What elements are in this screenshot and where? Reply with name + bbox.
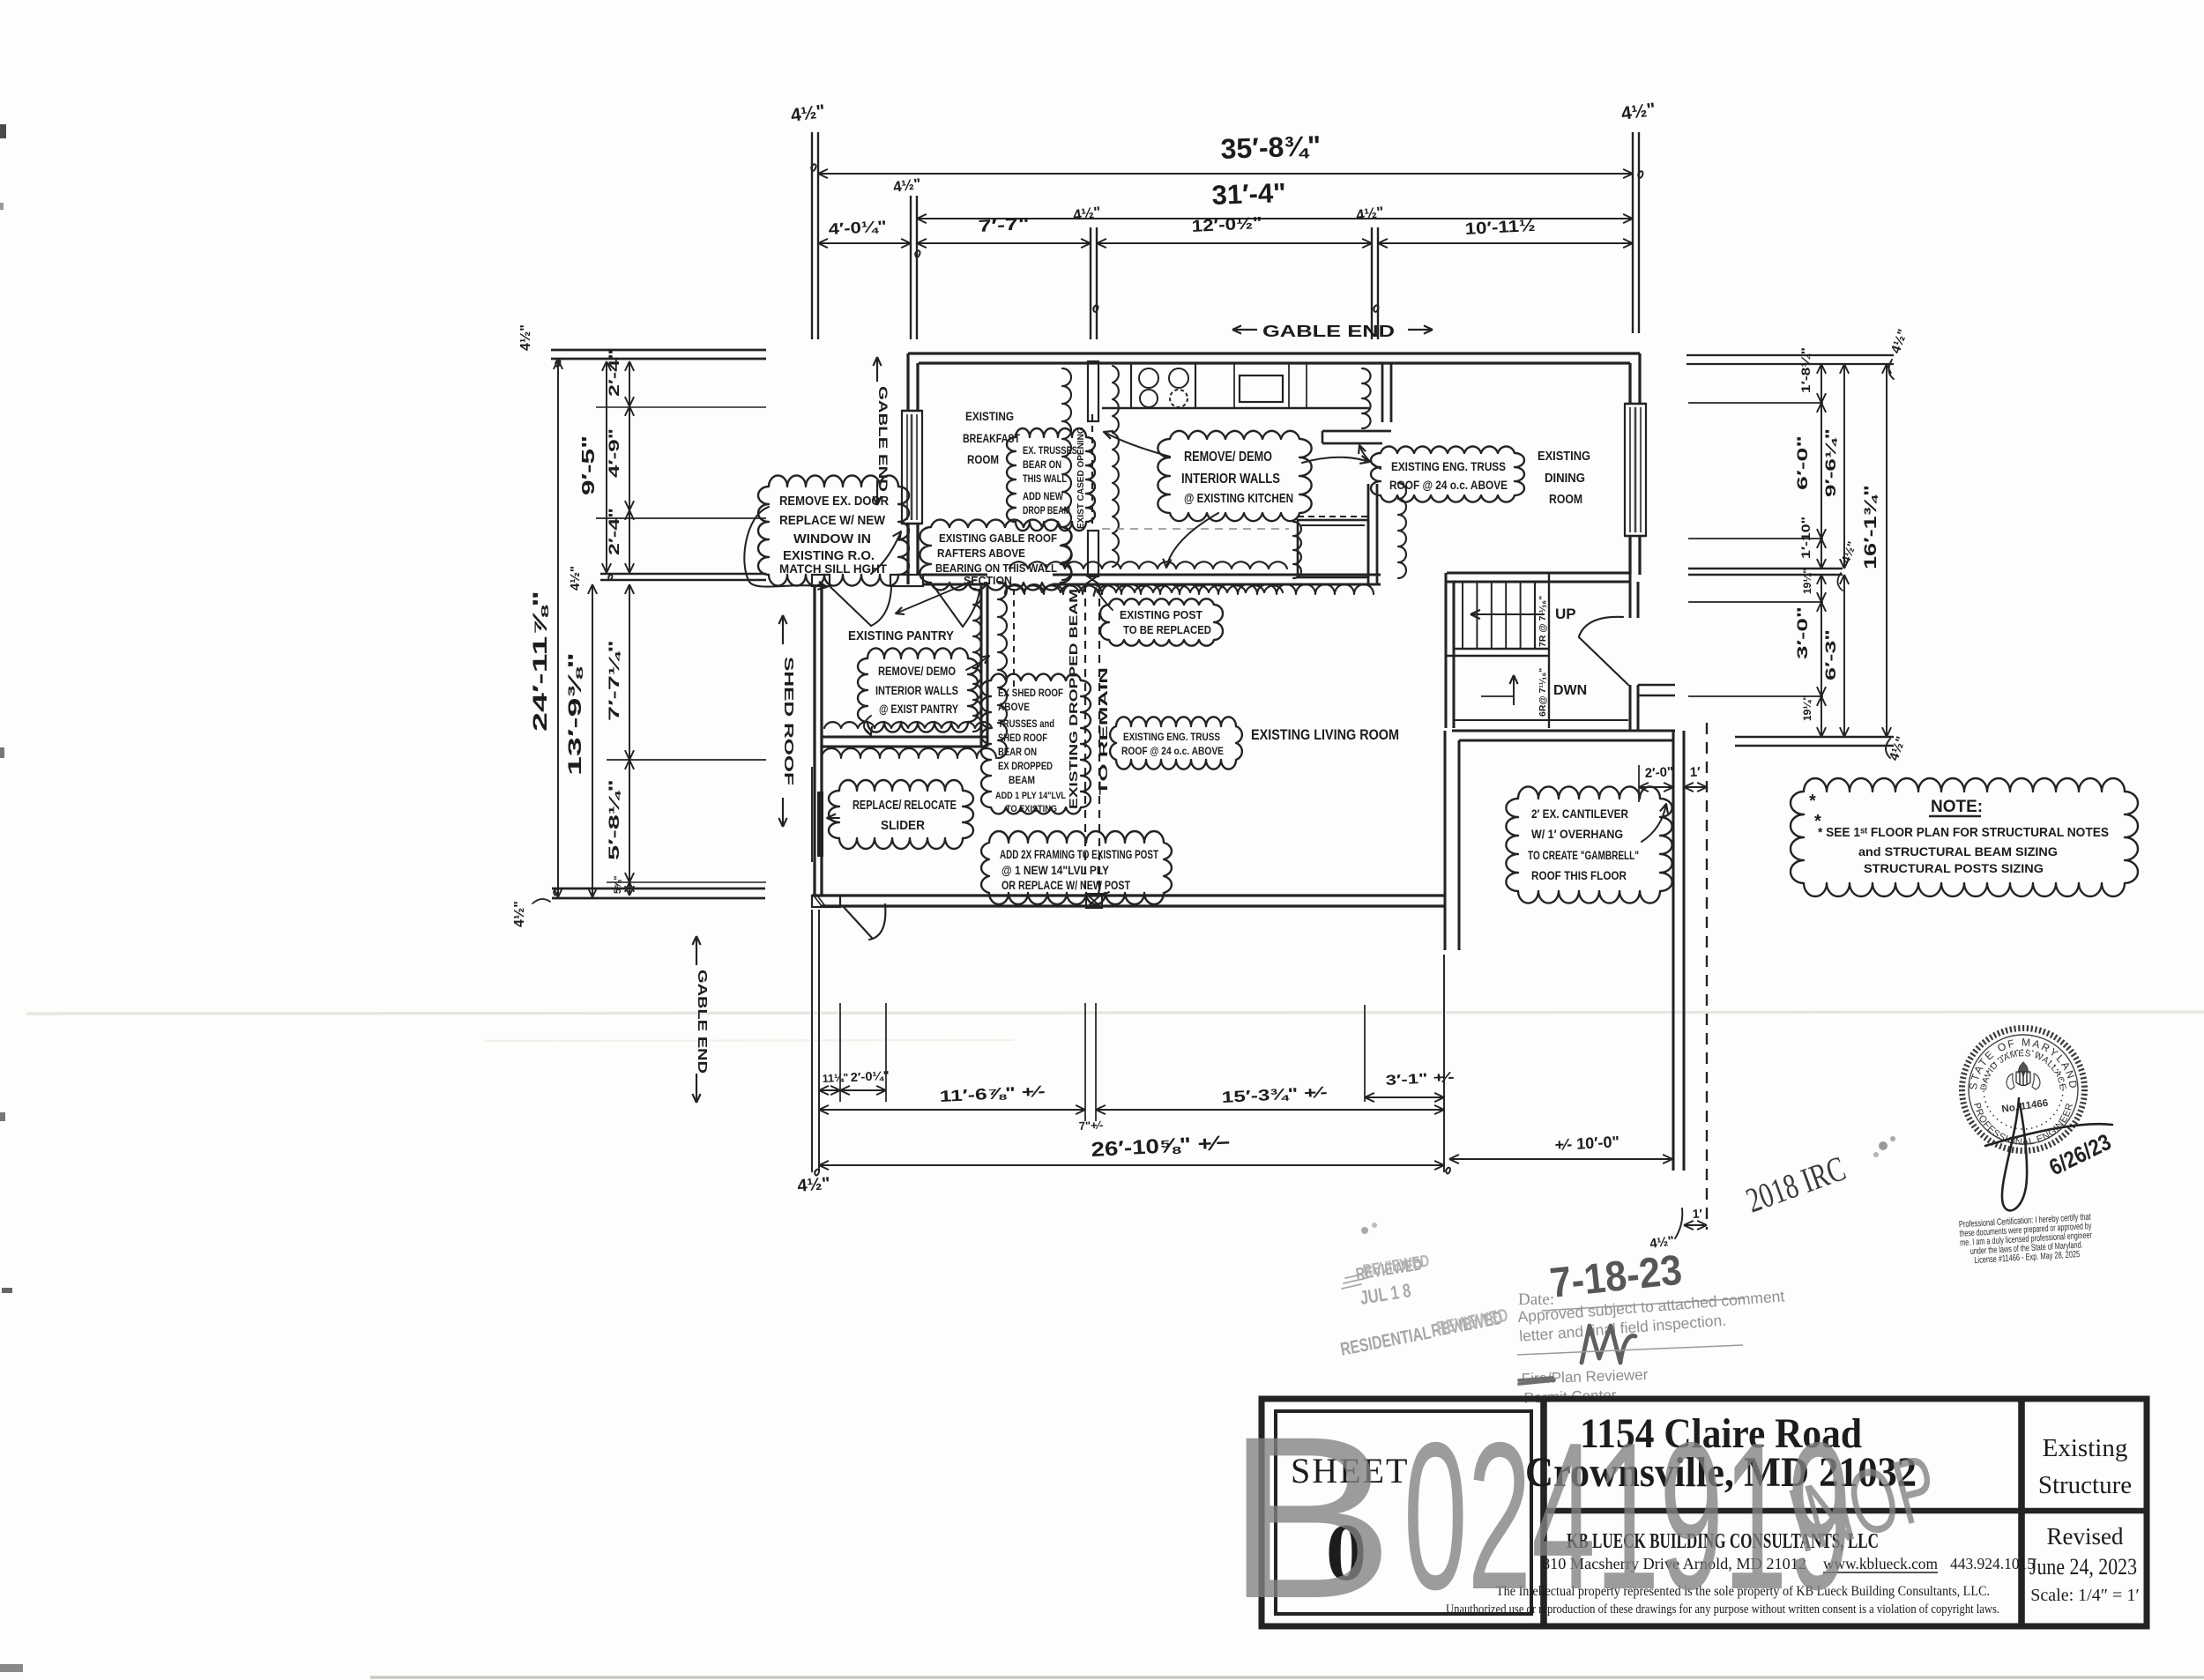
gable end label top [1232, 329, 1257, 331]
svg-text:EXISTING DROPPED BEAM: EXISTING DROPPED BEAM [1068, 589, 1080, 809]
pantry top wall with door jambs [812, 575, 830, 586]
pantry second door swing to kitchen [934, 586, 963, 627]
permit number marker graffiti B0241919 INOP [1225, 1388, 1948, 1647]
revision cloud around pantry walls [824, 722, 992, 728]
pantry bottom wall [822, 735, 987, 738]
svg-text:*: * [1814, 812, 1821, 831]
main top exterior wall [908, 352, 1640, 354]
svg-text:EXIST CASED OPENING: EXIST CASED OPENING [1076, 427, 1086, 529]
svg-text:443.924.1015: 443.924.1015 [1950, 1555, 2035, 1572]
title block sheet cell inner box [1276, 1411, 1531, 1614]
svg-text:Scale: 1/4″ = 1′: Scale: 1/4″ = 1′ [2030, 1586, 2139, 1605]
window extension lines left wing [596, 406, 766, 408]
svg-text:TO CREATE "GAMBRELL": TO CREATE "GAMBRELL" [1528, 849, 1639, 862]
svg-text:4½": 4½" [797, 1174, 831, 1196]
svg-text:7"+⁄-: 7"+⁄- [1078, 1119, 1103, 1133]
left dim 24'-11 7/8 overall [557, 360, 559, 897]
svg-text:ADD NEW: ADD NEW [1023, 492, 1063, 502]
kitchen removed wall dashed trace [1102, 528, 1289, 530]
svg-text:1′-10": 1′-10" [1799, 517, 1813, 559]
svg-text:WINDOW IN: WINDOW IN [793, 532, 871, 546]
lower-right section walls [1443, 731, 1446, 950]
svg-text:SLIDER: SLIDER [881, 819, 925, 833]
dimension chain 4'-0 1/4, 7'-7, 12'-0 1/2, 10'-11 1/2 [818, 242, 911, 244]
cloud ex shed roof above trusses etc [981, 674, 1091, 814]
svg-text:THIS WALL: THIS WALL [1023, 474, 1067, 485]
svg-text:9′-5": 9′-5" [579, 435, 599, 495]
door jamb below and wall piece [1628, 685, 1631, 731]
bottom dim 3'-1 [1365, 1096, 1444, 1098]
svg-text:@ EXISTING KITCHEN: @ EXISTING KITCHEN [1184, 491, 1293, 506]
svg-text:7R @ 7¹¹⁄₁₆": 7R @ 7¹¹⁄₁₆" [1538, 596, 1548, 647]
svg-text:B: B [1225, 1388, 1395, 1647]
gable wall window [902, 411, 922, 524]
svg-text:4½": 4½" [512, 901, 527, 927]
left chain 13'-9 3/8 / 7'-7 1/4, 5'-8 1/4, 5 5/8 [592, 584, 593, 897]
stair landing line [1454, 648, 1549, 650]
reviewer signature M [1582, 1326, 1635, 1363]
svg-text:24′-11⅞": 24′-11⅞" [529, 591, 551, 732]
svg-text:* SEE 1ˢᵗ FLOOR PLAN FOR ST: * SEE 1ˢᵗ FLOOR PLAN FOR STRUCTURAL NOTE… [1818, 826, 2109, 840]
cloud add 2x framing to existing post [981, 831, 1172, 904]
svg-text:5⅝": 5⅝" [613, 875, 623, 894]
svg-text:REPLACE/ RELOCATE: REPLACE/ RELOCATE [853, 799, 957, 813]
svg-text:6′-0": 6′-0" [1794, 435, 1811, 490]
svg-text:RAFTERS ABOVE: RAFTERS ABOVE [937, 546, 1025, 560]
slider replace/relocate bar [817, 792, 823, 857]
existing dropped beam dashed lines [1084, 584, 1086, 896]
left chain 9'-5 / 2'-4 4'-9 2'-4 [606, 361, 607, 573]
svg-text:12′-0½": 12′-0½" [1191, 214, 1262, 236]
right dim chain 2 [1843, 364, 1845, 569]
svg-text:2′ EX. CANTILEVER: 2′ EX. CANTILEVER [1531, 807, 1628, 821]
wall line between breakfast and pantry extended [600, 573, 766, 576]
svg-text:INTERIOR WALLS: INTERIOR WALLS [1181, 472, 1280, 487]
svg-text:SECTION: SECTION [964, 575, 1012, 587]
kitchen sink box [1240, 375, 1283, 402]
svg-text:EX SHED ROOF: EX SHED ROOF [998, 688, 1063, 699]
pantry right wall [979, 583, 982, 747]
left wing top wall [551, 349, 766, 352]
svg-text:ROOF @ 24 o.c. ABOVE: ROOF @ 24 o.c. ABOVE [1389, 479, 1508, 492]
bottom dims 11'-6 7/8 and 15'-3 3/4 [819, 1109, 1085, 1111]
page scan artifacts [26, 1012, 2204, 1014]
stair left wall [1444, 573, 1447, 728]
bottom wall door at left [812, 896, 840, 907]
stair down arrow [1513, 675, 1515, 705]
bottom dims row small 11 1/4 and 2'-0 1/4 [819, 1089, 840, 1091]
svg-text:1′-8¼": 1′-8¼" [1798, 347, 1813, 393]
svg-text:REMOVE/ DEMO: REMOVE/ DEMO [1184, 450, 1272, 465]
svg-text:W/ 1′ OVERHANG: W/ 1′ OVERHANG [1531, 827, 1623, 841]
cloud 2' ex cantilever gambrell roof [1506, 786, 1672, 903]
approved subject stamp text [1517, 1287, 1787, 1345]
dining window right wall [1625, 404, 1646, 536]
X post box at bottom wall [1086, 894, 1102, 908]
svg-text:SHED ROOF: SHED ROOF [781, 657, 796, 785]
svg-text:16′-1¾": 16′-1¾" [1862, 485, 1880, 569]
stair hall top wall [1447, 571, 1630, 574]
svg-text:ADD 2X FRAMING TO EXISTING P: ADD 2X FRAMING TO EXISTING POST [1000, 848, 1159, 861]
svg-text:11¼": 11¼" [822, 1071, 848, 1085]
svg-text:EX DROPPED: EX DROPPED [998, 762, 1053, 772]
title block outer box [1262, 1399, 2147, 1626]
svg-text:19¼": 19¼" [1801, 569, 1813, 594]
svg-text:2′-4": 2′-4" [606, 349, 622, 397]
svg-text:ROOM: ROOM [967, 453, 999, 466]
gable end label left [876, 357, 878, 382]
kitchen counter and appliances [1102, 407, 1369, 409]
dimension 31'-4 [917, 218, 1633, 219]
stair treads [1462, 582, 1463, 649]
stair hall bottom boundary [1454, 719, 1628, 721]
svg-text:DINING: DINING [1545, 472, 1585, 486]
svg-text:GABLE END: GABLE END [1262, 323, 1395, 340]
svg-text:6′-3": 6′-3" [1822, 629, 1839, 680]
svg-text:10′-11½: 10′-11½ [1464, 217, 1536, 239]
hatch at wall end [814, 896, 822, 906]
kitchen lower divider wall [1367, 484, 1370, 584]
cloud NOTE see 1st floor plan [1791, 778, 2138, 896]
svg-text:BEAM: BEAM [1009, 776, 1035, 786]
pantry left wall / living room west wall [813, 584, 815, 896]
main bottom wall [812, 894, 1446, 896]
left gable end wall [906, 353, 909, 584]
right dim extension lines [1687, 354, 1894, 356]
svg-text:4′-0¼": 4′-0¼" [828, 218, 887, 238]
svg-text:EXISTING GABLE ROOF: EXISTING GABLE ROOF [939, 532, 1057, 545]
svg-text:EXISTING R.O.: EXISTING R.O. [783, 549, 875, 563]
cloud replace/relocate slider [829, 780, 973, 849]
svg-text:NOTE:: NOTE: [1931, 798, 1983, 816]
svg-text:EXISTING ENG. TRUSS: EXISTING ENG. TRUSS [1123, 731, 1220, 743]
svg-text:and STRUCTURAL BEAM SIZING: and STRUCTURAL BEAM SIZING [1858, 844, 2058, 859]
svg-text:ROOF @ 24 o.c. ABOVE: ROOF @ 24 o.c. ABOVE [1121, 747, 1224, 757]
svg-text:9′-6¼": 9′-6¼" [1822, 428, 1839, 497]
svg-text:BEAR ON: BEAR ON [1023, 460, 1061, 471]
svg-text:@ 1 NEW 14"LVL PLY: @ 1 NEW 14"LVL PLY [1001, 864, 1109, 877]
svg-text:June 24, 2023: June 24, 2023 [2029, 1554, 2137, 1580]
gable end label bottom [696, 936, 697, 965]
cantilever dims 2'-0 and 1' [1638, 765, 1640, 802]
svg-text:TO REMAIN: TO REMAIN [1098, 667, 1110, 795]
door from stair hall to dining [1579, 637, 1628, 685]
left wing bottom wall [552, 888, 765, 890]
svg-text:35′-8¾": 35′-8¾" [1220, 130, 1322, 165]
cloud existing post to be replaced [1100, 598, 1223, 645]
svg-text:ABOVE: ABOVE [998, 702, 1030, 713]
bottom dim 10'-0 [1449, 1158, 1672, 1160]
svg-text:7′-7": 7′-7" [978, 215, 1030, 236]
engineer seal - State of Maryland [1962, 1029, 2085, 1151]
title block dividers [1540, 1399, 1547, 1626]
short dashed beam near pantry [1013, 589, 1015, 688]
svg-text:DROP BEAM: DROP BEAM [1023, 506, 1070, 517]
bottom small dim 1' at dashed line [1684, 1224, 1707, 1226]
seal crest coat of arms [2018, 1062, 2029, 1076]
cloud ex. trusses bear on this wall add new drop beam [1007, 428, 1095, 531]
main right exterior wall (dining) [1628, 363, 1631, 575]
seal signature [2002, 1098, 2027, 1210]
svg-text:ROOM: ROOM [1549, 493, 1582, 507]
svg-text:EXISTING: EXISTING [965, 410, 1014, 423]
svg-text:4½": 4½" [518, 324, 533, 351]
svg-text:TO EXISTING: TO EXISTING [1006, 804, 1057, 814]
X post mark at dropped beam crossing [1085, 575, 1099, 584]
cloud existing eng truss roof living room [1110, 717, 1242, 769]
svg-text:EXISTING ENG. TRUSS: EXISTING ENG. TRUSS [1391, 459, 1506, 473]
svg-text:Revised: Revised [2047, 1523, 2124, 1550]
svg-text:2′-0": 2′-0" [1644, 764, 1673, 781]
svg-text:OR REPLACE W/ NEW POST: OR REPLACE W/ NEW POST [1001, 879, 1131, 892]
bottom overall 26'-10 5/8 [819, 1164, 1444, 1166]
svg-text:INTERIOR WALLS: INTERIOR WALLS [875, 684, 958, 697]
svg-text:UP: UP [1555, 606, 1576, 622]
svg-text:5′-8¼": 5′-8¼" [606, 779, 622, 860]
svg-text:0241919: 0241919 [1404, 1400, 1851, 1633]
revision cloud flanking cased opening [1062, 368, 1071, 580]
svg-text:GABLE END: GABLE END [695, 970, 710, 1074]
svg-text:+⁄- 10′-0": +⁄- 10′-0" [1554, 1133, 1619, 1154]
svg-text:EXISTING: EXISTING [1538, 450, 1590, 464]
svg-text:DWN: DWN [1553, 683, 1587, 698]
svg-text:BEAR ON: BEAR ON [998, 747, 1037, 758]
svg-text:EX. TRUSSES: EX. TRUSSES [1023, 446, 1077, 457]
svg-text:Structure: Structure [2038, 1471, 2132, 1499]
svg-text:@ EXIST PANTRY: @ EXIST PANTRY [879, 702, 958, 716]
svg-text:3′-0": 3′-0" [1794, 606, 1811, 659]
svg-text:ADD 1 PLY 14"LVL: ADD 1 PLY 14"LVL [995, 791, 1066, 801]
stove with 4 burners [1139, 368, 1158, 388]
kitchen interior wall upper right [1381, 363, 1384, 422]
svg-text:*: * [1809, 792, 1816, 811]
fire/plan reviewer permit center [1521, 1366, 1649, 1407]
svg-text:REMOVE/ DEMO: REMOVE/ DEMO [878, 665, 956, 678]
stair up arrow [1471, 613, 1545, 615]
svg-text:TRUSSES and: TRUSSES and [998, 719, 1054, 730]
svg-text:Existing: Existing [2043, 1434, 2128, 1462]
right dim chain 3 overall 16'-1 3/4 [1886, 364, 1888, 737]
dimension 35'-8 3/4 [818, 173, 1633, 175]
shed roof label [782, 615, 784, 644]
kitchen island [1298, 520, 1368, 577]
svg-text:4′-9": 4′-9" [606, 428, 622, 478]
professional certification text block [1959, 1212, 2094, 1267]
kitchen / living divider wall with revision cloud [1053, 573, 1381, 576]
svg-text:BEARING ON THIS WALL: BEARING ON THIS WALL [935, 562, 1057, 575]
cloud remove/demo interior walls at existing kitchen [1158, 431, 1311, 521]
svg-text:REPLACE W/ NEW: REPLACE W/ NEW [779, 514, 885, 528]
cloud existing eng truss roof kitchen [1371, 446, 1524, 502]
svg-text:6R@ 7¹¹⁄₁₆": 6R@ 7¹¹⁄₁₆" [1538, 668, 1548, 717]
svg-text:STRUCTURAL POSTS SIZING: STRUCTURAL POSTS SIZING [1864, 861, 2044, 875]
svg-text:EXISTING PANTRY: EXISTING PANTRY [848, 629, 954, 643]
svg-text:ROOF THIS FLOOR: ROOF THIS FLOOR [1531, 869, 1627, 882]
bottom dim extension lines [811, 910, 813, 1172]
svg-text:SHED ROOF: SHED ROOF [998, 733, 1047, 744]
svg-text:13′-9⅜": 13′-9⅜" [565, 652, 585, 776]
svg-text:EXISTING POST: EXISTING POST [1120, 608, 1203, 621]
pantry door swing [830, 586, 871, 626]
svg-text:1′: 1′ [1689, 764, 1701, 780]
svg-text:REMOVE EX. DOOR: REMOVE EX. DOOR [779, 494, 889, 509]
right dim chain 1 [1821, 364, 1822, 403]
stair rail bar with 7R label [1534, 582, 1536, 649]
svg-text:2′-0¼": 2′-0¼" [850, 1068, 890, 1084]
kitchen cased opening dashed + jambs [1088, 361, 1098, 421]
dining right wall above door [1628, 573, 1631, 618]
svg-text:2′-4": 2′-4" [606, 508, 622, 555]
svg-text:1′: 1′ [1692, 1206, 1703, 1221]
top dimension extension lines [811, 132, 813, 339]
svg-text:31′-4": 31′-4" [1211, 177, 1286, 211]
cantilever dashed line of roof above [1706, 723, 1708, 1230]
cloud remove/demo interior walls at exist pantry [858, 648, 978, 732]
svg-text:4½": 4½" [568, 566, 583, 591]
cloud remove ex. door replace w/ new window [758, 475, 909, 585]
svg-text:EXISTING LIVING ROOM: EXISTING LIVING ROOM [1251, 726, 1399, 743]
svg-text:TO BE REPLACED: TO BE REPLACED [1123, 623, 1211, 636]
svg-text:7′-7¼": 7′-7¼" [606, 640, 622, 721]
cloud existing gable roof rafters above bearing on this wall section [920, 520, 1071, 591]
reviewer signature line [1517, 1345, 1743, 1355]
svg-text:19¼": 19¼" [1801, 695, 1813, 721]
